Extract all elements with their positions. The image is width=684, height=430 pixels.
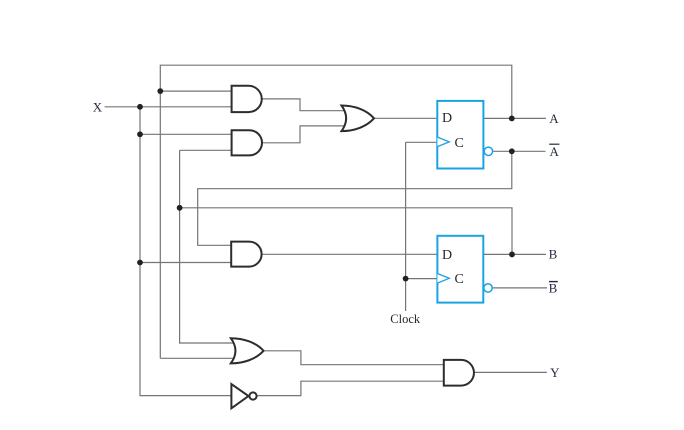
wire: AND1 top input from A rail	[160, 90, 231, 92]
flip-flop A Qbar bubble	[484, 147, 492, 155]
not-gate bubble	[249, 392, 256, 399]
and-gate A2 (B.x)	[232, 130, 262, 155]
flip-flop B clock triangle	[437, 274, 449, 284]
junction dot clock branch	[403, 276, 409, 282]
junction dot B output	[509, 252, 515, 258]
flip-flop A body	[437, 101, 483, 169]
svg-text:X: X	[93, 100, 103, 115]
wire: B output	[483, 253, 546, 255]
junction dot X wire	[137, 104, 143, 110]
wire: AND4 output to Y	[474, 371, 547, 373]
wire: A output	[484, 117, 546, 119]
junction dot Abar output	[509, 148, 515, 154]
junction dot AND1 top input	[157, 88, 163, 94]
wire: B rail vertical with turn to OR2 top input	[180, 150, 238, 343]
svg-text:D: D	[442, 248, 452, 263]
flip-flop A clock triangle	[437, 137, 449, 147]
overline of Bbar	[549, 281, 558, 283]
wire: A rail up, top rail, down to A output	[160, 65, 512, 358]
svg-text:C: C	[455, 136, 464, 151]
wire: X input horizontal	[105, 106, 232, 108]
or-gate O1 (sum to DA)	[342, 106, 375, 132]
wire: AND3 bottom input from X rail	[140, 262, 231, 264]
wire: OR2 output to AND4 top input	[264, 351, 444, 365]
svg-text:Clock: Clock	[390, 312, 421, 326]
overline of Abar	[549, 143, 559, 145]
flip-flop B Qbar bubble	[484, 284, 492, 292]
wire: clock vertical	[405, 142, 407, 311]
or-gate O2 (A+B)	[231, 338, 264, 363]
svg-text:C: C	[455, 272, 464, 287]
wire: OR1 output to D input of flip-flop A	[374, 117, 437, 119]
svg-text:A: A	[550, 144, 560, 159]
svg-text:D: D	[442, 111, 452, 126]
wire: OR2 bottom input from A rail	[160, 357, 238, 359]
wire: clock branch to C input of flip-flop B	[406, 278, 438, 280]
wire: AND2 top input from X rail	[140, 133, 232, 135]
wire: Abar feedback down, left, down to AND3 top input	[198, 151, 512, 245]
svg-text:B: B	[549, 280, 558, 295]
junction dot AND3 bottom input	[137, 260, 143, 266]
wire: X vertical rail with turn to NOT gate input	[140, 107, 231, 396]
svg-text:A: A	[549, 111, 559, 126]
wire: Bbar output	[492, 287, 547, 289]
wire: AND1 output to OR1 top input	[262, 99, 346, 111]
wire: AND2 output to OR1 bottom input	[262, 126, 346, 143]
wire: Abar output	[492, 150, 545, 152]
and-gate A3 (Abar.x)	[231, 242, 261, 267]
and-gate A4 (output y)	[444, 360, 474, 386]
not-gate (inverter on x)	[231, 384, 248, 408]
flip-flop B body	[437, 236, 483, 303]
wire: AND2 bottom input from B rail	[180, 149, 232, 151]
wire: AND3 output to D input of flip-flop B	[262, 253, 438, 255]
wire: B feedback from B output up and left to B rail	[180, 208, 512, 255]
and-gate A1 (A.x)	[232, 86, 262, 112]
junction dot AND2 top input	[137, 131, 143, 137]
wire: clock to C input of flip-flop A	[406, 141, 438, 143]
wire: NOT output to AND4 bottom input	[257, 381, 444, 395]
junction dot A output	[509, 116, 515, 122]
junction dot B feedback	[177, 205, 183, 211]
svg-text:Y: Y	[550, 365, 560, 380]
svg-text:B: B	[549, 246, 558, 261]
